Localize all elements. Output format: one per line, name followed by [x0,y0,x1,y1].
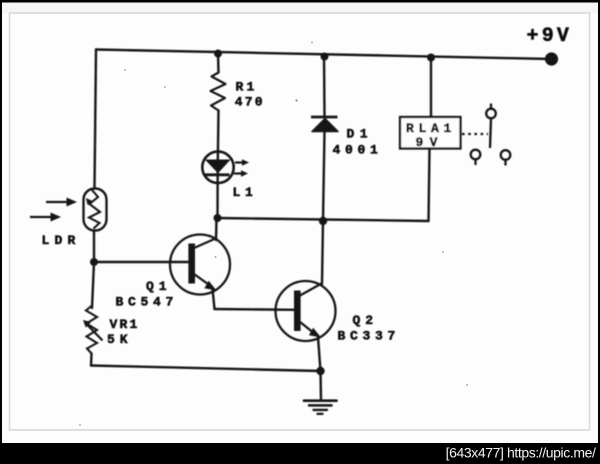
ground symbol [304,401,337,414]
wire LED to node B [216,168,219,218]
wire Q2 emitter down to ground node [318,337,321,371]
node C dot (D1/Q2 collector) [319,217,327,225]
svg-text:BC547: BC547 [116,295,179,310]
svg-text:+9V: +9V [527,25,573,48]
svg-text:4001: 4001 [333,143,383,158]
ground stem [319,371,322,400]
wire Q1 emitter down [213,289,215,309]
svg-text:VR1: VR1 [110,317,140,332]
node A dot (LDR/VR1/Q1 base) [90,258,98,266]
svg-text:Q1: Q1 [146,279,172,294]
transistor Q1 [170,235,230,295]
svg-text:470: 470 [235,95,265,110]
scan speck noise [295,99,297,101]
svg-text:D1: D1 [347,127,374,142]
wire left branch from rail to LDR [95,50,97,189]
svg-text:BC337: BC337 [338,329,401,344]
wire rail to D1 [323,57,326,117]
relay RLA1 box [400,117,461,149]
node dot rail-D1 [321,53,329,61]
svg-text:[643x477] https://upic.me/: [643x477] https://upic.me/ [446,445,596,461]
svg-text:9V: 9V [416,135,444,150]
node B dot (LED/Q1 collector) [214,214,222,222]
node dot rail-relay [427,54,435,62]
wire VR1 bottom to corner [90,354,93,366]
wire relay corner up [429,149,430,222]
svg-text:LDR: LDR [42,233,81,248]
node dot rail-R1 [214,50,222,58]
resistor R1 [211,73,226,111]
transistor Q2 [276,281,336,341]
svg-text:R1: R1 [236,80,258,95]
wire Q2 collector vertical [322,221,323,284]
potentiometer VR1 [83,305,103,354]
svg-text:5K: 5K [107,332,133,347]
svg-text:Q2: Q2 [353,313,379,328]
wire node A to VR1 [92,262,94,308]
svg-text:RLA1: RLA1 [406,121,456,136]
ground node dot [316,367,324,375]
light arrow 1 into LDR [46,198,77,207]
wire Q1 collector vertical [215,218,218,240]
wire rail to relay top [430,58,432,118]
relay actuation dotted link [462,133,488,135]
wire rail to R1 [217,54,220,73]
+9V terminal dot [545,52,558,65]
diode D1 [311,117,338,132]
wire +9V rail [96,50,551,60]
LED L1 [202,152,249,183]
wire D1 anode to node C [323,131,325,221]
wire mid horizontal node B to relay corner [218,218,429,221]
wire Q1 emitter to Q2 base [215,308,295,311]
wire R1 to LED [216,111,219,169]
wire bottom ground rail [91,366,321,372]
LDR [84,189,107,231]
svg-text:L1: L1 [233,185,258,200]
light arrow 2 into LDR [30,213,61,222]
wire LDR to node A [93,231,95,262]
relay contact switch [471,104,511,166]
wire Q1 base [94,261,188,263]
